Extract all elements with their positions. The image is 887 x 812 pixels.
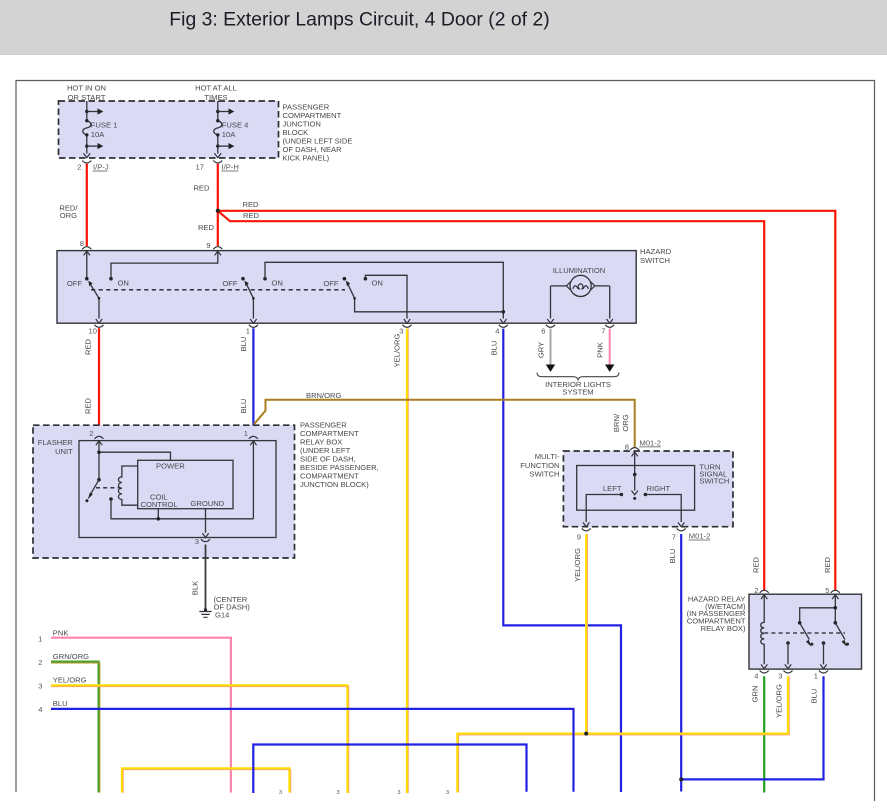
svg-text:ON: ON xyxy=(272,278,283,287)
pin 3 YEL/ORG wire xyxy=(38,675,349,793)
switch (flasher contacts) xyxy=(85,478,112,502)
svg-text:FUSE 4: FUSE 4 xyxy=(222,121,249,130)
svg-text:YEL/ORG: YEL/ORG xyxy=(573,548,582,582)
coil (flasher relay coil) xyxy=(118,466,137,505)
svg-text:1: 1 xyxy=(244,429,248,438)
svg-text:BLU: BLU xyxy=(53,699,68,708)
wire RED branch to hazard relay pin 2 xyxy=(218,211,764,591)
hazard relay box xyxy=(749,594,862,669)
wire BRN/ORG flasher pin1 to MFS pin 8 xyxy=(254,391,635,447)
node pin5 junction xyxy=(834,606,838,610)
svg-text:6: 6 xyxy=(541,327,545,336)
multi-function switch dashed box xyxy=(563,451,733,527)
connector pin 9 (MFS bottom) xyxy=(577,528,591,541)
svg-text:SWITCH: SWITCH xyxy=(640,256,670,265)
label HOT AT ALL TIMES xyxy=(195,84,237,103)
connector pin 2 (relay top) xyxy=(754,586,768,599)
wire coil control to pin1 net xyxy=(111,499,253,519)
svg-text:17: 17 xyxy=(196,163,204,172)
connector pin 17 I/P-H xyxy=(196,161,239,172)
svg-text:1: 1 xyxy=(814,672,818,681)
svg-text:ON: ON xyxy=(372,278,383,287)
svg-text:RED: RED xyxy=(752,556,761,573)
svg-text:ORG: ORG xyxy=(60,211,77,220)
wire power feed to POWER box xyxy=(99,452,171,460)
connector pin 1 (hazard bottom) xyxy=(246,325,258,336)
svg-text:3: 3 xyxy=(398,790,401,796)
svg-text:M01-2: M01-2 xyxy=(640,438,662,447)
wire RED branch to hazard relay pin 5 xyxy=(218,200,836,591)
label HOT IN ON OR START xyxy=(67,84,106,103)
pin 2 GRN/ORG wire xyxy=(38,652,100,793)
svg-text:BLU: BLU xyxy=(668,549,677,564)
wire coil control stub xyxy=(157,509,159,519)
svg-text:FUNCTION: FUNCTION xyxy=(520,461,559,470)
label TURN SIGNAL SWITCH xyxy=(699,462,729,485)
turn signal inner box xyxy=(577,466,695,511)
wire YEL/ORG relay pin3 to bottom left xyxy=(457,676,789,792)
svg-text:YEL/ORG: YEL/ORG xyxy=(53,675,87,684)
connector pin 3 (relay bottom) xyxy=(778,671,792,681)
wire RED fuse F4 to hazard pin 9 xyxy=(193,164,217,246)
label (CENTER OF DASH) xyxy=(214,595,251,612)
svg-text:7: 7 xyxy=(672,533,676,542)
wire ON3 contact to pin 3 xyxy=(365,275,407,318)
connector pin 7 (hazard bottom) xyxy=(601,325,614,336)
brace interior lights system xyxy=(537,373,619,397)
label MULTI-FUNCTION SWITCH xyxy=(520,452,560,478)
svg-text:RED: RED xyxy=(84,338,93,355)
connector pin 8 M01-2 (MFS top) xyxy=(625,438,661,456)
svg-text:RED: RED xyxy=(823,556,832,573)
pin 4 BLU wire xyxy=(38,699,573,792)
connector pin 9 (hazard switch top) xyxy=(206,241,222,255)
svg-text:3: 3 xyxy=(38,682,42,691)
svg-text:RED: RED xyxy=(84,397,93,414)
svg-text:4: 4 xyxy=(495,327,499,336)
relay coil xyxy=(761,595,764,665)
wire BLU bridge (to lamps below) xyxy=(253,745,526,794)
svg-text:PNK: PNK xyxy=(53,628,69,637)
svg-text:SWITCH: SWITCH xyxy=(530,470,560,479)
svg-text:GRY: GRY xyxy=(537,342,546,358)
svg-text:RED: RED xyxy=(193,184,210,193)
svg-text:TIMES: TIMES xyxy=(204,93,227,102)
tiny pin marks at bottom crop xyxy=(279,790,449,796)
node junction pin4 net xyxy=(502,310,506,314)
wire LEFT contact to pin 9 xyxy=(586,495,621,523)
header bar xyxy=(0,0,887,55)
mechanical link (dashed) flasher xyxy=(96,487,120,489)
svg-text:8: 8 xyxy=(80,239,84,248)
svg-text:2: 2 xyxy=(77,163,81,172)
switch S2 (hazard) xyxy=(222,277,283,323)
svg-text:3: 3 xyxy=(195,537,199,546)
wire BLU hazard pin4 down and right xyxy=(490,329,622,792)
wire YEL/ORG MFS pin9 down xyxy=(573,534,588,734)
svg-text:POWER: POWER xyxy=(156,462,185,471)
svg-text:RED: RED xyxy=(198,223,215,232)
svg-text:LEFT: LEFT xyxy=(603,484,622,493)
svg-text:3: 3 xyxy=(446,790,449,796)
connector pin 10 (hazard bottom) xyxy=(89,325,104,336)
wire ON2 contact to pin 4 xyxy=(265,262,503,318)
wire BLU hazard pin1 to flasher pin1 xyxy=(239,328,253,435)
connector pin 5 (relay top) xyxy=(825,586,840,599)
wire YEL/ORG hazard pin3 down to bottom xyxy=(393,329,409,793)
contact to pin 3 xyxy=(785,641,791,669)
svg-text:HOT AT ALL: HOT AT ALL xyxy=(195,84,237,93)
label PASSENGER COMPARTMENT RELAY BOX xyxy=(300,421,379,490)
wire pin5 to contacts xyxy=(800,595,836,623)
lamp ILLUMINATION xyxy=(547,266,613,323)
svg-text:BLU: BLU xyxy=(239,337,248,352)
svg-text:UNIT: UNIT xyxy=(55,447,73,456)
svg-text:10A: 10A xyxy=(222,130,236,139)
svg-text:OFF: OFF xyxy=(67,279,83,288)
wire pin2 to switch pivot xyxy=(98,441,100,480)
svg-text:GRN: GRN xyxy=(751,686,760,703)
svg-text:RELAY BOX): RELAY BOX) xyxy=(701,624,746,633)
LEFT contact xyxy=(603,484,623,496)
svg-text:BLU: BLU xyxy=(490,341,499,356)
connector pin 1 (flasher top) xyxy=(244,429,258,445)
wire PNK to interior lights xyxy=(596,329,615,372)
node BLU junction xyxy=(679,777,683,781)
svg-text:9: 9 xyxy=(206,241,210,250)
POWER box xyxy=(138,460,233,509)
mechanical link (dashed) relay xyxy=(764,632,845,634)
wire BLU MFS pin7 down xyxy=(668,534,681,792)
connector pin 2 (flasher top) xyxy=(89,429,103,445)
fuse F1 10A xyxy=(83,101,118,158)
passenger compartment junction block box xyxy=(59,101,279,158)
label FLASHER UNIT xyxy=(38,438,74,456)
svg-text:I/P-J: I/P-J xyxy=(93,163,109,172)
switch S1 (hazard) xyxy=(67,277,129,323)
connector pin 4 (hazard bottom) xyxy=(495,325,508,336)
svg-text:7: 7 xyxy=(601,327,605,336)
svg-text:G14: G14 xyxy=(215,611,229,620)
wire GROUND to pin 3 xyxy=(205,509,207,533)
hazard switch box xyxy=(57,251,636,324)
relay blade 2 xyxy=(834,621,850,647)
connector pin 7 M01-2 (MFS bottom) xyxy=(672,528,711,541)
svg-text:1: 1 xyxy=(38,635,42,644)
RIGHT contact xyxy=(644,484,671,496)
svg-text:ILLUMINATION: ILLUMINATION xyxy=(553,266,606,275)
wire GRY to interior lights xyxy=(537,329,556,372)
svg-text:YEL/ORG: YEL/ORG xyxy=(775,684,784,718)
svg-text:GROUND: GROUND xyxy=(191,499,225,508)
svg-text:2: 2 xyxy=(754,586,758,595)
node YEL/ORG junction xyxy=(584,732,588,736)
turn signal blade xyxy=(632,473,638,500)
svg-text:10A: 10A xyxy=(91,130,105,139)
wire GRN relay pin4 down xyxy=(751,676,765,792)
svg-text:Fig 3: Exterior Lamps Circuit,: Fig 3: Exterior Lamps Circuit, 4 Door (2… xyxy=(169,9,549,31)
svg-text:CONTROL: CONTROL xyxy=(141,500,178,509)
connector pin 1 (relay bottom) xyxy=(814,671,828,681)
svg-text:ORG: ORG xyxy=(621,414,630,431)
svg-text:5: 5 xyxy=(825,586,829,595)
svg-text:BLU: BLU xyxy=(239,399,248,414)
svg-text:KICK PANEL): KICK PANEL) xyxy=(283,153,330,162)
label HAZARD SWITCH xyxy=(640,247,672,265)
wire RED hazard pin10 to flasher pin2 xyxy=(84,328,100,435)
svg-text:BRN/ORG: BRN/ORG xyxy=(306,391,342,400)
connector pin 2 I/P-J xyxy=(77,161,109,172)
svg-text:SYSTEM: SYSTEM xyxy=(562,388,593,397)
svg-text:BLU: BLU xyxy=(810,689,819,704)
wire BLK to ground xyxy=(191,545,206,611)
wire pin9 feed to ON1 contact xyxy=(111,251,218,279)
svg-text:PNK: PNK xyxy=(596,342,605,358)
wire RED/ORG fuse F1 to hazard pin 8 xyxy=(59,164,86,246)
svg-text:3: 3 xyxy=(337,790,340,796)
svg-text:GRN/ORG: GRN/ORG xyxy=(53,652,89,661)
svg-text:YEL/ORG: YEL/ORG xyxy=(393,334,402,368)
connector pin 4 (relay bottom) xyxy=(754,671,768,681)
svg-text:2: 2 xyxy=(89,429,93,438)
svg-text:OFF: OFF xyxy=(222,279,238,288)
node power feed junction xyxy=(97,450,101,454)
svg-text:HOT IN ON: HOT IN ON xyxy=(67,84,106,93)
svg-text:3: 3 xyxy=(778,672,782,681)
svg-text:JUNCTION BLOCK): JUNCTION BLOCK) xyxy=(300,480,369,489)
contact to pin 1 xyxy=(820,641,826,669)
svg-text:BLK: BLK xyxy=(191,581,200,595)
flasher inner box xyxy=(79,441,276,538)
svg-text:OFF: OFF xyxy=(323,279,339,288)
svg-text:SWITCH: SWITCH xyxy=(699,477,729,486)
pin 1 PNK wire xyxy=(38,628,231,792)
svg-text:FUSE 1: FUSE 1 xyxy=(91,121,118,130)
connector pin 3 (flasher bottom) xyxy=(195,537,210,546)
svg-text:9: 9 xyxy=(577,533,581,542)
wire BLU relay pin1 to MFS pin7 wire xyxy=(681,676,823,779)
svg-text:M01-2: M01-2 xyxy=(689,532,711,541)
svg-text:1: 1 xyxy=(246,327,250,336)
connector pin 8 (hazard switch top) xyxy=(80,239,92,255)
junction block label xyxy=(283,102,353,162)
svg-text:FLASHER: FLASHER xyxy=(38,438,74,447)
svg-text:OR START: OR START xyxy=(68,93,106,102)
svg-text:RED: RED xyxy=(243,211,260,220)
svg-text:HAZARD: HAZARD xyxy=(640,247,672,256)
label HAZARD RELAY (W/ETACM)... xyxy=(687,594,746,633)
svg-text:ON: ON xyxy=(118,278,129,287)
relay blade 1 xyxy=(798,621,814,647)
svg-text:MULTI-: MULTI- xyxy=(535,452,560,461)
ground G14 xyxy=(199,608,229,619)
svg-text:8: 8 xyxy=(625,442,629,451)
svg-text:RIGHT: RIGHT xyxy=(647,484,671,493)
fuse F4 10A xyxy=(214,101,249,158)
flasher unit dashed box xyxy=(33,425,295,558)
node coil control junction xyxy=(157,517,161,521)
node RED junction xyxy=(216,209,220,213)
svg-text:3: 3 xyxy=(279,790,282,796)
switch S3 (hazard) xyxy=(323,277,503,312)
svg-text:RED: RED xyxy=(243,200,260,209)
svg-text:BRN/: BRN/ xyxy=(612,413,621,432)
wire pin1 down to switch net xyxy=(252,441,254,519)
mechanical link (dashed) hazard switches xyxy=(91,289,345,291)
svg-text:I/P-H: I/P-H xyxy=(222,163,239,172)
wire YEL/ORG bridge (to lamps below) xyxy=(122,768,291,793)
svg-text:10: 10 xyxy=(89,327,97,336)
wire pin8 to blade pivot xyxy=(634,452,636,474)
connector pin 6 (hazard bottom) xyxy=(541,325,555,336)
wire RIGHT contact to pin 7 xyxy=(645,495,681,523)
connector pin 3 (hazard bottom) xyxy=(399,325,411,336)
svg-text:4: 4 xyxy=(754,672,758,681)
svg-text:4: 4 xyxy=(38,705,42,714)
svg-text:2: 2 xyxy=(38,658,42,667)
wire pin8 feed to switch1 pivot xyxy=(86,251,88,279)
